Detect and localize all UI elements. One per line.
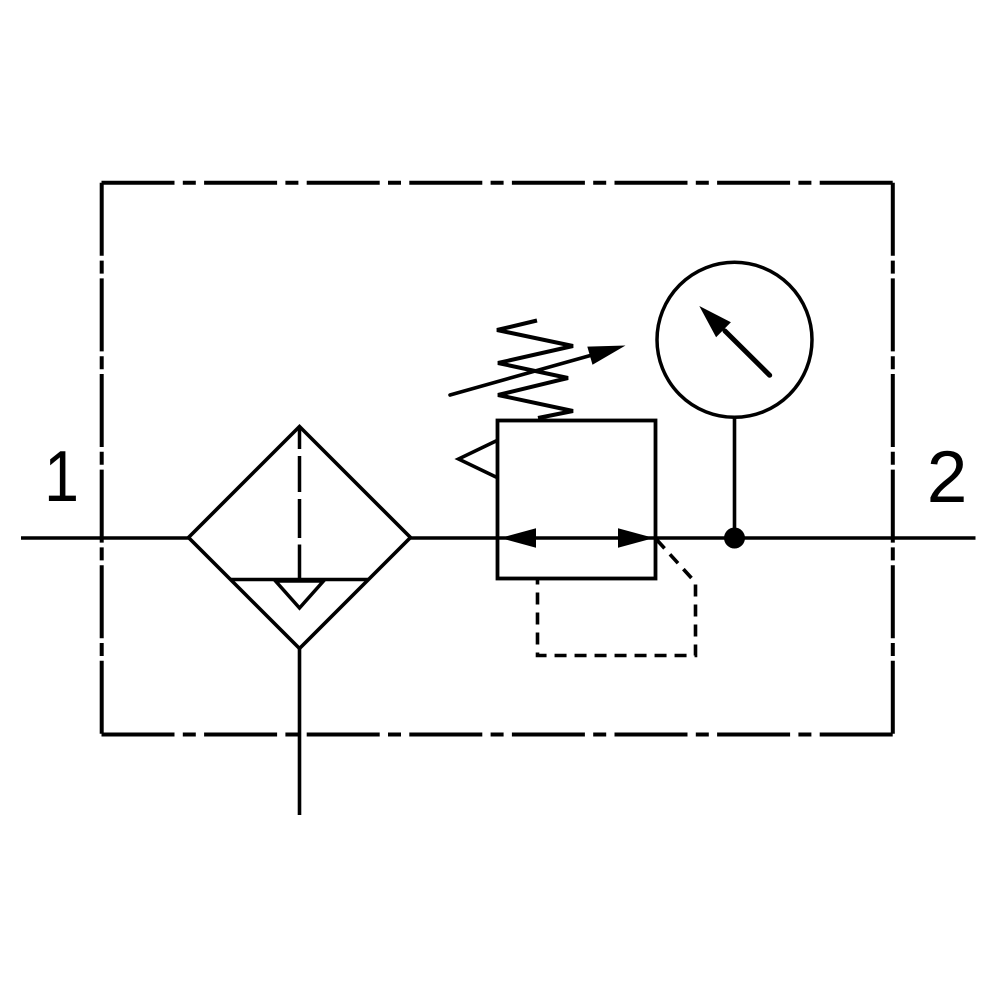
- regulator R1 body box: [498, 421, 656, 579]
- svg-text:2: 2: [927, 437, 968, 518]
- junction dot: [724, 528, 745, 549]
- filter element dashed centerline: [298, 428, 302, 580]
- gauge needle: [699, 306, 769, 375]
- regulator flow arrow right: [618, 528, 654, 547]
- pressure gauge G1 dial: [657, 262, 812, 417]
- svg-text:1: 1: [44, 437, 79, 517]
- enclosure border (dash-dot assembly boundary): [102, 183, 894, 735]
- filter drain triangle: [276, 581, 324, 608]
- wire: main line from filter outlet through regulator to port 2: [411, 536, 976, 540]
- wire: drain line: [298, 648, 302, 815]
- filter condensate baffle chord: [231, 578, 369, 582]
- regulator spring: [497, 321, 573, 419]
- wire: gauge stem: [733, 418, 737, 538]
- regulator adjustment arrow: [450, 346, 626, 396]
- wire: inlet line port 1 to filter: [21, 536, 189, 540]
- filter F1 diamond body: [189, 427, 411, 649]
- regulator relief vent triangle: [459, 441, 498, 478]
- pilot dashed line: [538, 540, 696, 656]
- regulator flow arrow left: [500, 528, 536, 547]
